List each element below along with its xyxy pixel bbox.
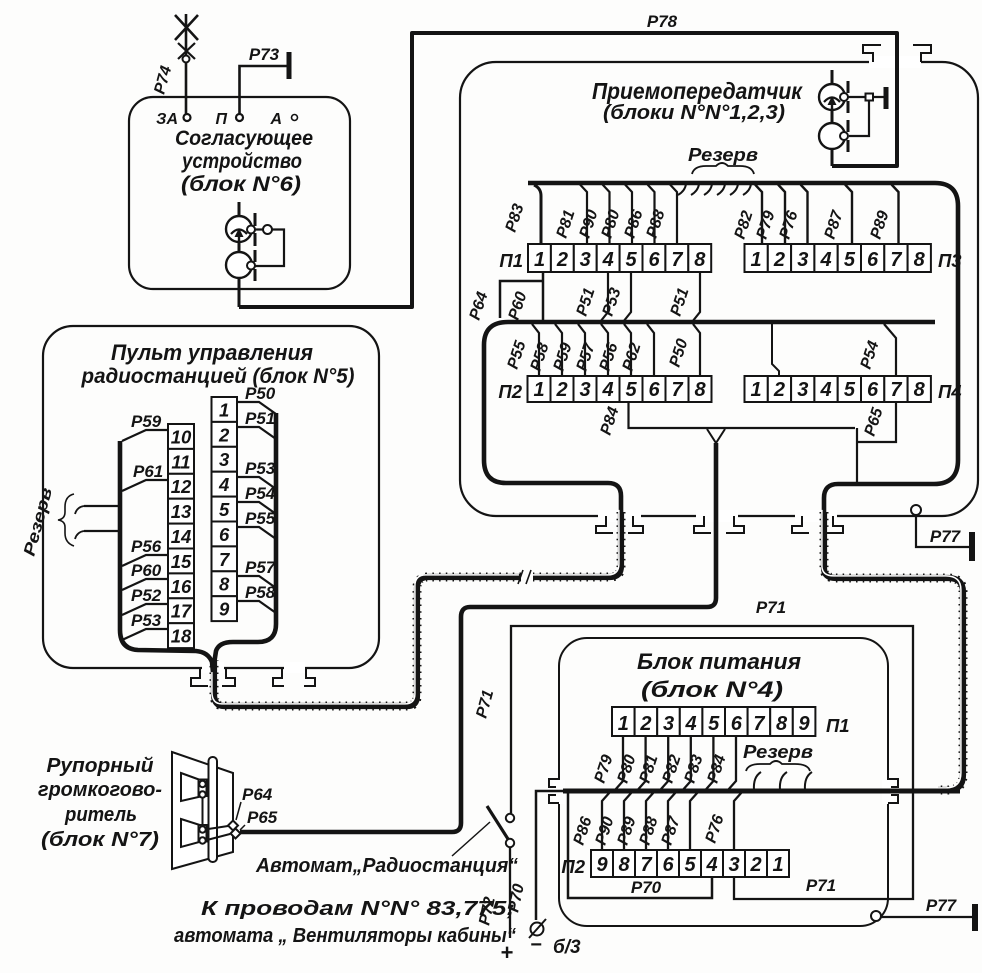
svg-text:7: 7 bbox=[219, 549, 231, 570]
svg-text:8: 8 bbox=[219, 574, 230, 595]
wire label Р55 bbox=[505, 338, 530, 371]
svg-text:П3: П3 bbox=[938, 250, 962, 271]
wire Р73 with flag terminal bbox=[240, 52, 290, 114]
connector П1 pins 1-8 bbox=[528, 244, 711, 272]
svg-text:3: 3 bbox=[663, 713, 674, 735]
wire Р57 (panel pin) bbox=[237, 576, 276, 588]
wire label Р76 bbox=[777, 209, 802, 241]
wire label Р76 bbox=[703, 813, 728, 845]
svg-text:устройство: устройство bbox=[181, 149, 302, 173]
svg-text:(блоки N°N°1,2,3): (блоки N°N°1,2,3) bbox=[603, 101, 785, 124]
connector pair symbol (transceiver antenna link) bbox=[819, 70, 886, 166]
wire label Р74 bbox=[151, 64, 175, 96]
wire label Р80 bbox=[615, 753, 640, 785]
svg-text:Р78: Р78 bbox=[647, 12, 678, 31]
svg-text:Р64: Р64 bbox=[242, 785, 273, 804]
svg-text:громкогово-: громкогово- bbox=[38, 778, 162, 801]
svg-text:9: 9 bbox=[219, 599, 230, 620]
wire label Р53 bbox=[600, 286, 625, 318]
svg-text:Р50: Р50 bbox=[245, 384, 276, 403]
reserve stub 2 bbox=[75, 531, 120, 539]
wire Р61 (pin12) bbox=[122, 480, 168, 491]
svg-text:4: 4 bbox=[705, 854, 717, 876]
svg-text:Р60: Р60 bbox=[131, 561, 162, 580]
terminal label + bbox=[501, 940, 514, 965]
label Автомат Радиостанция bbox=[255, 855, 518, 877]
svg-text:5: 5 bbox=[684, 854, 696, 876]
loudspeaker caption bbox=[38, 754, 162, 851]
svg-text:9: 9 bbox=[596, 854, 608, 876]
wire label Р82 bbox=[660, 753, 685, 785]
cable control panel riser, hatched bbox=[212, 575, 521, 706]
wire label Р86 bbox=[571, 815, 596, 847]
wire label Р71 (power) bbox=[806, 876, 836, 895]
connector strip pins 10-18 (panel left column) bbox=[168, 424, 194, 648]
wire label Р56 bbox=[597, 341, 622, 373]
svg-text:(блок N°7): (блок N°7) bbox=[41, 828, 159, 851]
wire bus (power unit) bbox=[563, 789, 960, 794]
svg-text:8: 8 bbox=[694, 379, 706, 401]
wire label Р61 bbox=[133, 462, 163, 481]
svg-text:Р56: Р56 bbox=[131, 537, 162, 556]
svg-text:3: 3 bbox=[219, 449, 230, 470]
cable glands on power unit edges bbox=[549, 779, 898, 803]
svg-text:5: 5 bbox=[625, 379, 637, 401]
wire label Р57 bbox=[245, 558, 277, 577]
svg-text:8: 8 bbox=[914, 249, 926, 271]
svg-text:1: 1 bbox=[618, 713, 629, 735]
wire label Р50 bbox=[245, 384, 276, 403]
cable gland on transceiver top edge bbox=[863, 45, 931, 62]
svg-text:Резерв: Резерв bbox=[743, 742, 813, 762]
wire Р55 (panel pin) bbox=[237, 527, 276, 539]
wire label Р51 bbox=[668, 286, 693, 318]
svg-text:5: 5 bbox=[708, 713, 720, 735]
edge gaps for cable glands bbox=[202, 56, 921, 804]
wire Р51 (panel pin) bbox=[237, 427, 276, 439]
svg-text:7: 7 bbox=[671, 379, 683, 401]
svg-text:П1: П1 bbox=[826, 715, 850, 736]
wires П3 pins to bus bbox=[755, 185, 899, 245]
svg-text:1: 1 bbox=[219, 399, 229, 420]
svg-text:Р58: Р58 bbox=[245, 583, 276, 602]
svg-text:Р71: Р71 bbox=[806, 876, 836, 895]
svg-text:1: 1 bbox=[751, 249, 762, 271]
svg-text:1: 1 bbox=[534, 249, 545, 271]
svg-text:3: 3 bbox=[579, 379, 590, 401]
svg-text:1: 1 bbox=[751, 379, 762, 401]
svg-text:6: 6 bbox=[648, 379, 660, 401]
node diamonds Р64/Р65 bbox=[228, 821, 241, 839]
svg-text:2: 2 bbox=[218, 424, 230, 445]
wires П2 pins 9-5 to bus (power) bbox=[602, 792, 698, 850]
cable to loudspeaker (thick) bbox=[240, 443, 716, 832]
block box: Блок питания (блок №4) bbox=[559, 638, 888, 926]
svg-text:7: 7 bbox=[640, 854, 652, 876]
wire Р76 (П2 pin3 to bus) bbox=[734, 792, 742, 850]
svg-text:12: 12 bbox=[171, 476, 192, 497]
wire label Р72 bbox=[476, 895, 499, 926]
svg-text:5: 5 bbox=[219, 499, 230, 520]
wire label Р81 bbox=[637, 753, 662, 785]
wires П1 pins 3-7 to bus bbox=[580, 185, 677, 245]
wire label Р54 bbox=[245, 484, 276, 503]
svg-text:2: 2 bbox=[556, 249, 568, 271]
svg-text:1: 1 bbox=[772, 854, 783, 876]
terminal label − б/3 bbox=[530, 934, 581, 958]
svg-text:Резерв: Резерв bbox=[688, 145, 758, 165]
terminal ЗА bbox=[184, 114, 191, 121]
connector П1 pins 1-9 (power) bbox=[612, 707, 815, 736]
wire label Р73 bbox=[249, 45, 280, 64]
svg-text:(блок N°6): (блок N°6) bbox=[181, 172, 301, 196]
wire label Р70 (rotated) bbox=[505, 882, 528, 913]
svg-text:3: 3 bbox=[797, 379, 808, 401]
wire label Р83 bbox=[503, 202, 528, 234]
wire label Р90 bbox=[577, 208, 602, 240]
cable break marks bbox=[518, 570, 531, 584]
wire label Р77 (upper) bbox=[930, 527, 962, 546]
svg-text:Рупорный: Рупорный bbox=[47, 754, 154, 777]
wire Р65 (П4 pin7 down) bbox=[857, 402, 896, 482]
connector labels П1 П3 bbox=[499, 250, 962, 271]
svg-text:(блок N°4): (блок N°4) bbox=[641, 677, 783, 702]
svg-text:П2: П2 bbox=[561, 856, 585, 877]
connector П2 pins 9-1 (power) bbox=[591, 850, 789, 877]
wire Р60 (П1 pin1 down) bbox=[542, 272, 545, 322]
wire label Р58 bbox=[528, 341, 553, 373]
wire label Р65 bbox=[247, 808, 278, 827]
svg-text:Пульт управления: Пульт управления bbox=[111, 340, 313, 365]
block box: Приемопередатчик (блоки №1,2,3) bbox=[460, 62, 978, 516]
wire Р50 (panel pin) bbox=[237, 402, 276, 414]
wire label Р64 bbox=[242, 785, 273, 804]
wire label Р57 bbox=[574, 340, 599, 373]
wire Р53 (pin18) bbox=[122, 629, 168, 640]
wire label Р84 bbox=[705, 753, 730, 785]
svg-text:П4: П4 bbox=[938, 381, 962, 402]
svg-text:5: 5 bbox=[844, 249, 856, 271]
wire label Р89 bbox=[615, 815, 640, 847]
label Резерв (transceiver) bbox=[688, 145, 758, 165]
wire label Р60 bbox=[131, 561, 162, 580]
Y junction into loudspeaker cable bbox=[707, 429, 725, 443]
cable B (transceiver to power unit), hatched bbox=[822, 510, 963, 790]
wire label Р58 bbox=[245, 583, 276, 602]
svg-text:автомата „ Вентиляторы кабины“: автомата „ Вентиляторы кабины“ bbox=[174, 924, 517, 947]
wire label Р64 bbox=[467, 290, 492, 322]
terminal б/3 (screw) bbox=[529, 919, 546, 938]
wire label Р60 bbox=[506, 290, 531, 322]
svg-text:б/3: б/3 bbox=[553, 937, 581, 958]
svg-text:7: 7 bbox=[890, 249, 902, 271]
reserve stubs (power) bbox=[754, 772, 812, 790]
svg-text:14: 14 bbox=[171, 526, 192, 547]
wires П2 pins to bus bbox=[532, 324, 700, 376]
svg-text:Р70: Р70 bbox=[631, 878, 662, 897]
svg-text:7: 7 bbox=[671, 249, 683, 271]
wire label Р51 bbox=[245, 409, 275, 428]
wire label Р71 (rotated) bbox=[473, 688, 497, 720]
svg-text:Р77: Р77 bbox=[926, 896, 958, 915]
svg-text:К проводам N°N° 83,775;: К проводам N°N° 83,775; bbox=[201, 897, 515, 920]
wire label Р87 bbox=[822, 208, 847, 241]
terminal П bbox=[236, 114, 243, 121]
svg-text:2: 2 bbox=[773, 249, 785, 271]
label leader Р65 bbox=[240, 825, 245, 830]
svg-text:4: 4 bbox=[685, 713, 697, 735]
svg-text:5: 5 bbox=[844, 379, 856, 401]
svg-text:11: 11 bbox=[171, 451, 190, 472]
svg-text:Согласующее: Согласующее bbox=[175, 126, 313, 150]
wire label Р52 bbox=[131, 586, 162, 605]
title: Блок питания (блок №4) bbox=[637, 649, 801, 702]
leader line to switch bbox=[452, 822, 490, 856]
svg-text:7: 7 bbox=[890, 379, 902, 401]
wire label Р71 (top of power unit) bbox=[756, 598, 786, 617]
svg-text:10: 10 bbox=[171, 426, 192, 447]
title: Пульт управления радиостанцией (блок №5) bbox=[81, 340, 355, 388]
wire Р56 (pin15) bbox=[122, 555, 168, 566]
node: circle on power box corner (lower Р77 tap) bbox=[871, 911, 881, 921]
loudspeaker horn upper bbox=[181, 773, 207, 801]
svg-text:9: 9 bbox=[799, 713, 811, 735]
note: автомата Вентиляторы кабины bbox=[174, 924, 517, 947]
svg-text:Р55: Р55 bbox=[245, 509, 276, 528]
wire label Р51 bbox=[574, 286, 599, 318]
svg-text:18: 18 bbox=[171, 626, 192, 647]
loudspeaker mounting post bbox=[209, 757, 218, 862]
wire label Р55 bbox=[245, 509, 276, 528]
reserve wire stubs on bus bbox=[678, 184, 751, 195]
block box: Согласующее устройство (блок №6) bbox=[129, 97, 350, 289]
switch Автомат Радиостанция bbox=[487, 806, 514, 847]
note: К проводам №№ 83,775 bbox=[201, 897, 515, 920]
wire Р52 (pin17) bbox=[122, 604, 168, 615]
connector П4 pins 1-8 bbox=[745, 376, 931, 402]
wire Р58 (panel pin) bbox=[237, 601, 276, 613]
svg-text:Р59: Р59 bbox=[131, 412, 162, 431]
wire label Р87 bbox=[659, 814, 684, 847]
wire label Р88 bbox=[644, 208, 669, 240]
wire label Р54 bbox=[858, 339, 883, 371]
wires П1 pins 1-6 to bus (power) bbox=[615, 736, 736, 790]
wire label Р53 bbox=[245, 459, 276, 478]
wire label Р56 bbox=[131, 537, 162, 556]
wire П4 pin2 to bus bbox=[772, 324, 779, 376]
svg-text:8: 8 bbox=[776, 713, 788, 735]
terminal А bbox=[292, 115, 298, 121]
label Резерв (power) bbox=[743, 742, 813, 762]
label Резерв (panel, rotated) bbox=[20, 486, 56, 558]
wire label Р80 bbox=[599, 208, 624, 240]
wire Р59 (pin10) bbox=[122, 430, 168, 441]
loudspeaker horn lower bbox=[181, 819, 207, 847]
wire П1 pin1 to bus (Р83) bbox=[534, 185, 541, 244]
title: Приемопередатчик (блоки №№1,2,3) bbox=[592, 78, 803, 124]
wire label Р79 bbox=[592, 753, 617, 785]
wire Р64 (branch to cable A) bbox=[500, 281, 543, 318]
cable glands on control panel bottom edge bbox=[191, 669, 315, 686]
svg-text:Р77: Р77 bbox=[930, 527, 962, 546]
cable A (transceiver to control panel), hatched bbox=[531, 510, 621, 577]
svg-text:4: 4 bbox=[218, 474, 229, 495]
wire label Р82 bbox=[732, 209, 757, 241]
connector labels П2 П4 bbox=[498, 381, 961, 402]
svg-text:2: 2 bbox=[555, 379, 567, 401]
svg-text:4: 4 bbox=[819, 249, 831, 271]
wire Р53 (П1 pin5 down) bbox=[623, 272, 631, 322]
wire Р77 (lower) with flag terminal bbox=[881, 904, 975, 931]
svg-text:Р65: Р65 bbox=[247, 808, 278, 827]
svg-text:15: 15 bbox=[171, 551, 192, 572]
wire label Р62 bbox=[620, 341, 645, 373]
svg-text:6: 6 bbox=[867, 249, 879, 271]
terminal labels ЗА П А bbox=[156, 111, 282, 128]
svg-text:2: 2 bbox=[773, 379, 785, 401]
wire label Р89 bbox=[868, 209, 893, 241]
wire bus right (panel) bbox=[214, 413, 276, 664]
wire Р51 (П1 pin8 down) bbox=[692, 272, 700, 322]
svg-text:−: − bbox=[530, 934, 542, 956]
wire Р72 bbox=[509, 847, 511, 938]
svg-text:Автомат„Радиостанция“: Автомат„Радиостанция“ bbox=[255, 855, 518, 877]
svg-text:Р54: Р54 bbox=[245, 484, 276, 503]
svg-text:16: 16 bbox=[171, 576, 192, 597]
wire label Р70 (power) bbox=[631, 878, 662, 897]
wire label Р53 bbox=[131, 611, 162, 630]
wire label Р84 bbox=[598, 405, 623, 437]
svg-text:17: 17 bbox=[171, 601, 193, 622]
wire Р60 (pin16) bbox=[122, 579, 168, 590]
svg-text:ритель: ритель bbox=[64, 803, 137, 826]
svg-text:Р73: Р73 bbox=[249, 45, 280, 64]
wire Р51 (П1 pin4 down) bbox=[600, 272, 608, 322]
svg-text:П2: П2 bbox=[498, 381, 522, 402]
node: circle on box edge (upper Р77 tap) bbox=[911, 505, 921, 515]
wire Р70 bbox=[536, 791, 712, 920]
title: Согласующее устройство (блок №6) bbox=[175, 126, 313, 196]
svg-text:3: 3 bbox=[580, 249, 591, 271]
wire label Р59 bbox=[551, 341, 576, 373]
svg-text:4: 4 bbox=[602, 249, 614, 271]
wire bus П2/П4 with left cable riser (cable A inside box) bbox=[484, 322, 935, 517]
svg-text:5: 5 bbox=[626, 249, 638, 271]
wire label Р59 bbox=[131, 412, 162, 431]
svg-text:4: 4 bbox=[819, 379, 831, 401]
svg-text:6: 6 bbox=[867, 379, 879, 401]
svg-text:13: 13 bbox=[171, 501, 192, 522]
svg-text:6: 6 bbox=[219, 524, 230, 545]
svg-text:Р57: Р57 bbox=[245, 558, 277, 577]
reserve stub 1 bbox=[75, 506, 120, 514]
svg-text:3: 3 bbox=[728, 854, 739, 876]
svg-text:6: 6 bbox=[662, 854, 674, 876]
svg-text:П1: П1 bbox=[499, 250, 523, 271]
connector labels П1 П2 (power) bbox=[561, 715, 849, 877]
wire label Р88 bbox=[637, 815, 662, 847]
connector strip pins 1-9 (panel right column) bbox=[212, 397, 238, 621]
wire label Р78 bbox=[647, 12, 678, 31]
wire Р78 (thick antenna feeder) bbox=[239, 33, 897, 307]
svg-text:8: 8 bbox=[914, 379, 926, 401]
svg-text:8: 8 bbox=[694, 249, 706, 271]
wire label Р83 bbox=[682, 753, 707, 785]
svg-text:1: 1 bbox=[533, 379, 544, 401]
svg-text:Р51: Р51 bbox=[245, 409, 275, 428]
cable glands on transceiver bottom edge bbox=[596, 516, 843, 533]
brace (Резерв power) bbox=[746, 761, 810, 771]
wire Р54 (П4 pin7 to bus) bbox=[884, 324, 896, 376]
wire label Р50 bbox=[667, 337, 692, 369]
wire bus left (panel) bbox=[120, 441, 213, 672]
loudspeaker panel bbox=[172, 752, 233, 869]
svg-text:6: 6 bbox=[731, 713, 743, 735]
svg-text:Р71: Р71 bbox=[756, 598, 786, 617]
wire label Р90 bbox=[593, 815, 618, 847]
svg-text:Р53: Р53 bbox=[245, 459, 276, 478]
svg-text:Р52: Р52 bbox=[131, 586, 162, 605]
wire Р77 (upper) with flag terminal bbox=[916, 515, 972, 561]
wire label Р81 bbox=[554, 208, 579, 240]
block box: Пульт управления радиостанцией (блок №5) bbox=[43, 326, 379, 668]
wire label Р77 (lower) bbox=[926, 896, 958, 915]
brace (Резерв group) bbox=[692, 163, 754, 174]
connector П2 pins 1-8 bbox=[528, 376, 712, 402]
wire Р53 (panel pin) bbox=[237, 477, 276, 489]
svg-text:Блок питания: Блок питания bbox=[637, 649, 801, 674]
svg-text:2: 2 bbox=[639, 713, 651, 735]
wire label Р86 bbox=[622, 208, 647, 240]
svg-text:2: 2 bbox=[749, 854, 761, 876]
label leader Р64 bbox=[236, 802, 241, 820]
brace (Резерв, panel) bbox=[58, 494, 74, 546]
connector pair symbol U6 bbox=[226, 202, 284, 307]
svg-text:радиостанцией (блок N°5): радиостанцией (блок N°5) bbox=[81, 365, 355, 388]
wire Р84 bbox=[629, 402, 856, 428]
svg-text:6: 6 bbox=[648, 249, 660, 271]
svg-text:3: 3 bbox=[797, 249, 808, 271]
svg-text:7: 7 bbox=[753, 713, 765, 735]
wire bus П1/П3 with right-side cable run bbox=[528, 183, 958, 517]
svg-text:4: 4 bbox=[601, 379, 613, 401]
wire label Р65 bbox=[862, 405, 887, 438]
svg-text:8: 8 bbox=[618, 854, 630, 876]
antenna symbol bbox=[175, 14, 198, 114]
wire Р54 (panel pin) bbox=[237, 502, 276, 514]
wire Р71 (П2 pin3 loop to switch) bbox=[511, 626, 913, 899]
wire label Р79 bbox=[754, 209, 779, 241]
loudspeaker internal wires bbox=[203, 798, 231, 841]
svg-text:Р61: Р61 bbox=[133, 462, 163, 481]
svg-text:Р53: Р53 bbox=[131, 611, 162, 630]
connector П3 pins 1-8 bbox=[745, 244, 931, 272]
